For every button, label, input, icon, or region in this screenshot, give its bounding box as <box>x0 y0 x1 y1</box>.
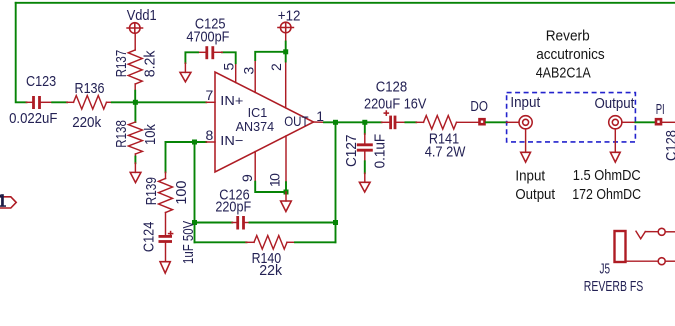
svg-text:R139: R139 <box>143 177 160 205</box>
ground under C124 <box>160 262 170 273</box>
resistor R138 <box>113 120 159 157</box>
svg-text:IN−: IN− <box>220 133 243 148</box>
ground under pin 10 <box>281 201 292 212</box>
svg-text:REVERB FS: REVERB FS <box>584 278 644 295</box>
junction node E at pin 10 <box>284 190 289 195</box>
wire node B down to feedback <box>194 142 196 242</box>
wire node A to pin 7 <box>135 101 206 103</box>
pin 2 <box>285 62 287 108</box>
junction node D <box>283 49 288 54</box>
wire R137 to node A <box>134 91 136 103</box>
wire IN- corner down to R139 <box>165 142 167 172</box>
wire C125 to ground <box>185 52 198 63</box>
svg-text:AN374: AN374 <box>236 120 274 134</box>
pin 9 <box>254 152 256 182</box>
connector J5 jack <box>600 228 675 277</box>
ground under output jack <box>610 152 620 162</box>
port DO <box>470 98 488 124</box>
svg-text:DO: DO <box>470 98 488 115</box>
svg-text:Reverb: Reverb <box>546 28 590 45</box>
svg-text:OUT: OUT <box>284 113 309 129</box>
op-amp U IC1 triangle <box>215 72 314 172</box>
port PI <box>656 101 665 124</box>
resistor R141 <box>416 116 478 161</box>
wire pin 10 to ground net <box>285 182 287 192</box>
svg-text:0.1uF: 0.1uF <box>372 134 389 169</box>
capacitor C123 <box>9 73 57 127</box>
svg-text:R138: R138 <box>113 120 130 148</box>
wire R138 to ground <box>134 157 136 164</box>
wire pin 9 to pin 10 ground net <box>255 182 286 192</box>
ground under C125 <box>180 63 191 82</box>
svg-text:Output: Output <box>595 95 636 112</box>
svg-text:10: 10 <box>266 173 282 187</box>
reverb output jack <box>595 95 636 152</box>
wire DO to reverb input <box>486 121 507 123</box>
svg-text:1.5 OhmDC: 1.5 OhmDC <box>573 167 641 184</box>
junction node G output-C127 <box>362 120 367 125</box>
power +12 <box>277 7 300 41</box>
svg-text:C123: C123 <box>26 73 56 90</box>
junction node C feedback left <box>192 220 197 225</box>
pin 8 <box>206 141 215 143</box>
wire pin5 top <box>222 52 236 63</box>
svg-text:3: 3 <box>241 67 257 75</box>
junction node F output-feedback <box>333 120 338 125</box>
svg-text:10k: 10k <box>142 124 159 145</box>
svg-text:C128: C128 <box>663 130 675 161</box>
wire left vertical net <box>16 3 27 103</box>
wire node A to R138 <box>134 102 136 122</box>
svg-text:R137: R137 <box>113 50 130 78</box>
svg-text:0.022uF: 0.022uF <box>9 110 57 127</box>
svg-text:4700pF: 4700pF <box>186 28 229 45</box>
wire R140 net left <box>195 241 247 243</box>
wire top horizontal net <box>16 2 675 4</box>
power Vdd1 <box>126 7 156 50</box>
wire feedback vertical <box>335 122 337 242</box>
svg-text:IN+: IN+ <box>220 93 243 108</box>
svg-text:220k: 220k <box>72 114 101 131</box>
svg-text:IC1: IC1 <box>248 106 268 120</box>
svg-text:Vdd1: Vdd1 <box>127 7 157 24</box>
svg-text:5: 5 <box>221 63 237 71</box>
resistor R137 <box>113 50 158 91</box>
pin 10 ground stem <box>285 192 287 201</box>
svg-text:220uF 16V: 220uF 16V <box>364 95 426 112</box>
wire C128 to R141 <box>405 121 416 123</box>
svg-text:C128: C128 <box>376 79 408 96</box>
pin 10 <box>285 136 287 182</box>
svg-text:8: 8 <box>206 127 214 143</box>
reverb tank dashed box <box>507 93 636 142</box>
svg-text:9: 9 <box>239 174 255 182</box>
wire R136 to node A <box>112 101 136 103</box>
resistor R136 <box>67 80 112 131</box>
svg-text:4AB2C1A: 4AB2C1A <box>536 65 591 82</box>
ground under R138 <box>130 163 141 183</box>
wire IN- net horizontal <box>166 141 207 143</box>
svg-text:Input: Input <box>510 94 541 111</box>
hierarchical pin 1 left edge <box>0 194 16 208</box>
pin 3 <box>254 60 256 92</box>
ground under input jack <box>521 152 531 162</box>
capacitor C125 <box>186 15 229 59</box>
svg-text:172 OhmDC: 172 OhmDC <box>572 186 641 203</box>
svg-text:22k: 22k <box>259 262 282 279</box>
pin 7 <box>206 101 215 103</box>
svg-text:C127: C127 <box>343 135 360 168</box>
svg-text:PI: PI <box>656 101 665 118</box>
wire C127 to ground <box>364 161 366 173</box>
svg-text:C124: C124 <box>141 222 158 252</box>
svg-text:7: 7 <box>206 87 214 103</box>
resistor R140 <box>246 236 296 279</box>
wire R140 net right <box>295 241 336 243</box>
resistor R139 <box>143 172 190 236</box>
pin 5 <box>235 63 237 82</box>
capacitor C128 polarized <box>364 79 426 130</box>
svg-text:220pF: 220pF <box>215 198 251 215</box>
svg-text:J5: J5 <box>600 260 611 277</box>
capacitor C126 <box>215 186 251 229</box>
wire C126 to node H <box>250 222 336 224</box>
capacitor C127 <box>343 122 388 168</box>
svg-text:8.2k: 8.2k <box>142 50 159 77</box>
svg-text:Output: Output <box>515 186 555 203</box>
wire PI to edge <box>662 121 675 123</box>
pin 1 <box>314 121 325 123</box>
svg-text:+12: +12 <box>278 7 301 24</box>
junction node H feedback right <box>333 220 338 225</box>
svg-text:Input: Input <box>515 168 545 185</box>
wire C126 net <box>195 222 233 224</box>
svg-text:R136: R136 <box>75 80 105 97</box>
svg-text:4.7 2W: 4.7 2W <box>425 143 466 160</box>
wire node D to pin 3 <box>255 52 286 60</box>
junction node A <box>133 100 138 105</box>
svg-text:accutronics: accutronics <box>536 46 605 63</box>
junction node B on IN- <box>192 140 197 145</box>
wire output net <box>324 121 382 123</box>
svg-text:100: 100 <box>173 181 190 205</box>
wire C123 to R136 <box>52 101 67 103</box>
wire +12 down to node D <box>285 42 287 62</box>
reverb input jack <box>507 94 541 152</box>
wire output jack to PI <box>635 121 654 123</box>
ground under C127 <box>359 173 370 192</box>
svg-text:2: 2 <box>268 63 284 71</box>
capacitor C124 polarized <box>141 221 198 264</box>
